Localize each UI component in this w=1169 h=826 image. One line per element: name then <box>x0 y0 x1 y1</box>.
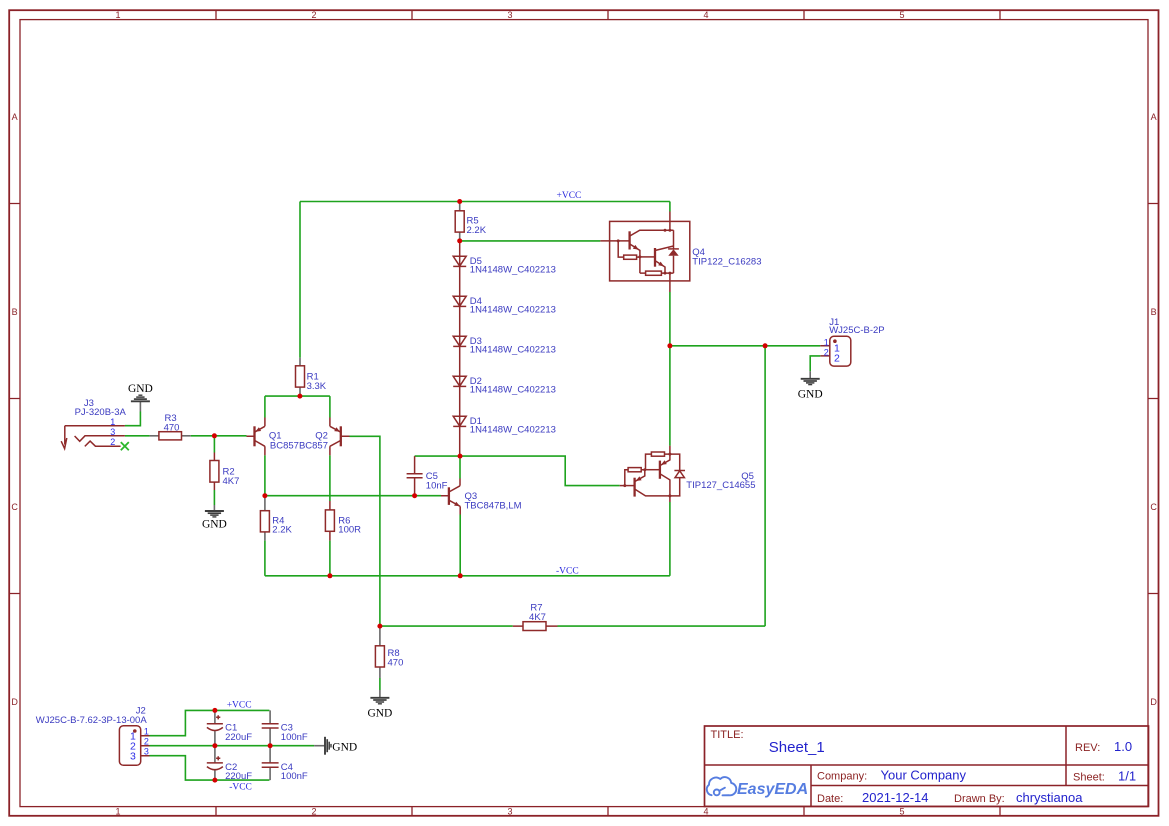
resistor R3 <box>150 413 191 440</box>
svg-text:2: 2 <box>311 10 316 20</box>
wire R6 bottom to -VCC rail <box>329 541 331 576</box>
svg-text:220uF: 220uF <box>225 732 252 743</box>
svg-text:+VCC: +VCC <box>227 701 252 711</box>
svg-text:100R: 100R <box>338 525 361 536</box>
svg-text:GND: GND <box>367 708 392 720</box>
svg-text:100nF: 100nF <box>281 732 308 743</box>
node junction R5 top <box>457 199 462 204</box>
svg-text:4: 4 <box>703 807 708 817</box>
svg-text:2: 2 <box>834 353 840 365</box>
transistor Q1 BC857 <box>247 418 282 456</box>
svg-text:2.2K: 2.2K <box>467 225 487 236</box>
wire Q3 emitter to -VCC rail <box>459 515 461 576</box>
resistor R2 <box>210 453 240 491</box>
svg-text:D: D <box>11 697 18 707</box>
svg-text:GND: GND <box>202 518 227 530</box>
svg-text:+VCC: +VCC <box>557 191 582 201</box>
wire J3 pin1 to ground <box>125 412 140 426</box>
svg-text:3: 3 <box>130 751 136 763</box>
svg-text:1N4148W_C402213: 1N4148W_C402213 <box>470 305 556 316</box>
wire +VCC rail down to Q4 collector <box>669 202 671 212</box>
wire R8 bottom to ground <box>379 678 381 690</box>
svg-text:2: 2 <box>144 737 149 747</box>
resistor R6 <box>325 501 361 541</box>
svg-text:3: 3 <box>110 427 115 437</box>
diode D2 1N4148W_C402213 <box>453 376 556 395</box>
svg-text:470: 470 <box>388 658 404 669</box>
wire D1 cathode to Q5 base <box>460 456 620 486</box>
capacitor C4 100nF <box>262 746 308 782</box>
svg-text:1: 1 <box>110 417 115 427</box>
svg-text:2021-12-14: 2021-12-14 <box>862 790 929 805</box>
svg-text:-VCC: -VCC <box>229 783 252 793</box>
node junction C3 bottom <box>268 743 273 748</box>
wire R7 to output branch <box>558 625 766 627</box>
diode chain connecting lead <box>459 241 461 456</box>
svg-text:GND: GND <box>332 741 357 753</box>
svg-text:3: 3 <box>507 807 512 817</box>
svg-text:TITLE:: TITLE: <box>711 729 744 741</box>
wire Q1 collector rail to Q3 base <box>265 495 441 497</box>
svg-text:1/1: 1/1 <box>1118 769 1136 784</box>
wire D1 cathode to C5 top <box>415 455 460 457</box>
wire R3 to Q1 base <box>191 435 247 437</box>
wire J3 pin3 to R3 <box>125 435 150 437</box>
wire R5 bottom to Q4 base <box>460 240 601 242</box>
ground symbol at R2 <box>202 505 227 530</box>
svg-text:BC857BC857: BC857BC857 <box>270 441 328 452</box>
node junction R6 at -VCC <box>327 573 332 578</box>
capacitor C5 <box>407 456 448 496</box>
svg-text:1: 1 <box>824 337 829 347</box>
svg-text:Your Company: Your Company <box>881 768 967 783</box>
svg-text:WJ25C-B-2P: WJ25C-B-2P <box>829 325 884 336</box>
wire Q5 collector to -VCC rail <box>669 502 671 576</box>
ground symbol at J3 <box>128 383 153 412</box>
svg-text:GND: GND <box>798 388 823 400</box>
svg-text:GND: GND <box>128 383 153 395</box>
svg-text:1: 1 <box>144 726 149 736</box>
svg-text:Sheet_1: Sheet_1 <box>769 739 825 756</box>
resistor R5 <box>455 202 487 241</box>
connector J1 WJ25C-B-2P <box>820 317 884 366</box>
svg-text:1: 1 <box>115 10 120 20</box>
transistor Q5 TIP127_C14655 darlington <box>620 446 756 502</box>
node junction Q1 collector / R4 <box>262 493 267 498</box>
svg-text:TIP122_C16283: TIP122_C16283 <box>692 257 761 268</box>
svg-text:220uF: 220uF <box>225 771 252 782</box>
svg-text:2.2K: 2.2K <box>272 525 292 536</box>
wire Q2 base to R7 R8 column <box>350 436 380 626</box>
wire output node to J1 <box>670 345 820 347</box>
svg-text:100nF: 100nF <box>281 771 308 782</box>
svg-text:1N4148W_C402213: 1N4148W_C402213 <box>470 385 556 396</box>
wire Q1 collector down <box>264 455 266 495</box>
svg-text:2: 2 <box>824 347 829 357</box>
title block <box>705 726 1149 806</box>
resistor R7 <box>513 603 558 631</box>
transistor Q2 BC857 <box>270 418 350 456</box>
svg-text:EasyEDA: EasyEDA <box>737 781 808 798</box>
capacitor C3 100nF <box>262 710 308 745</box>
svg-text:4K7: 4K7 <box>529 612 546 623</box>
svg-text:5: 5 <box>899 10 904 20</box>
svg-text:chrystianoa: chrystianoa <box>1016 790 1083 805</box>
node junction Q3 emitter at -VCC <box>458 573 463 578</box>
capacitor C1 220uF polarized <box>207 710 252 745</box>
EasyEDA logo <box>707 777 737 795</box>
svg-text:10nF: 10nF <box>426 480 448 491</box>
svg-text:B: B <box>12 307 18 317</box>
node junction R5 bottom / D5 anode <box>457 238 462 243</box>
diode D3 1N4148W_C402213 <box>453 336 556 355</box>
node junction C1 top <box>212 708 217 713</box>
node junction C2 bottom <box>212 778 217 783</box>
svg-text:A: A <box>12 112 18 122</box>
wire junction down to R2 <box>213 436 215 453</box>
wire R2 bottom to ground <box>213 490 215 505</box>
transistor Q4 TIP122_C16283 darlington <box>600 212 761 293</box>
ruler column numbers bottom <box>115 807 904 817</box>
svg-text:-VCC: -VCC <box>556 566 579 576</box>
ruler row letters right <box>1150 112 1157 707</box>
wire output branch down to R7 <box>764 346 766 626</box>
wire junction to R7 <box>380 625 513 627</box>
node junction C5 bottom <box>412 493 417 498</box>
svg-text:4K7: 4K7 <box>223 476 240 487</box>
ground symbol at R8 <box>367 690 392 720</box>
ground symbol at J1 <box>798 371 823 400</box>
ruler row letters left <box>11 112 18 707</box>
svg-text:1N4148W_C402213: 1N4148W_C402213 <box>470 425 556 436</box>
wire -VCC rail <box>265 575 670 577</box>
wire +VCC top rail <box>300 201 670 203</box>
svg-text:Drawn By:: Drawn By: <box>954 793 1005 805</box>
node junction output at Q4 emitter <box>667 343 672 348</box>
diode D1 1N4148W_C402213 <box>453 416 556 435</box>
wire Q2 collector down to R6 <box>329 455 331 501</box>
svg-text:Date:: Date: <box>817 793 843 805</box>
svg-text:470: 470 <box>164 422 180 433</box>
svg-text:TIP127_C14655: TIP127_C14655 <box>686 480 755 491</box>
svg-text:3: 3 <box>507 10 512 20</box>
svg-text:1.0: 1.0 <box>1114 739 1132 754</box>
node junction R1 bottom <box>297 394 302 399</box>
node junction D1 cathode <box>458 454 463 459</box>
svg-text:1N4148W_C402213: 1N4148W_C402213 <box>470 265 556 276</box>
capacitor C2 220uF polarized <box>207 746 252 782</box>
wire +VCC rail down to R1 <box>299 202 301 358</box>
svg-text:REV:: REV: <box>1075 742 1100 754</box>
no-connect flag on J3 pin 2 <box>121 442 129 450</box>
svg-text:C: C <box>11 502 18 512</box>
svg-text:Sheet:: Sheet: <box>1073 772 1105 784</box>
svg-text:2: 2 <box>311 807 316 817</box>
resistor R8 <box>375 626 403 678</box>
node junction R2 top <box>212 433 217 438</box>
svg-text:B: B <box>1151 307 1157 317</box>
svg-text:1N4148W_C402213: 1N4148W_C402213 <box>470 345 556 356</box>
wire Q4 emitter down to output node <box>669 292 671 446</box>
svg-text:TBC847B,LM: TBC847B,LM <box>465 501 522 512</box>
diode D4 1N4148W_C402213 <box>453 296 556 315</box>
ruler column numbers top <box>115 10 904 20</box>
svg-text:1: 1 <box>115 807 120 817</box>
svg-text:2: 2 <box>110 437 115 447</box>
diode D5 1N4148W_C402213 <box>453 256 556 275</box>
wire R4 bottom to -VCC rail <box>264 541 266 576</box>
wire Q1 Q2 emitter rail <box>265 396 330 417</box>
ground symbol sideways at J2 rail <box>314 737 357 755</box>
svg-text:Company:: Company: <box>817 771 867 783</box>
connector J3 PJ-320B-3A audio jack <box>61 398 126 449</box>
svg-text:PJ-320B-3A: PJ-320B-3A <box>75 407 127 418</box>
node junction output to R7 branch <box>763 343 768 348</box>
wire J2 pin1 to +VCC rail <box>150 710 270 735</box>
resistor R1 <box>296 358 327 396</box>
svg-text:3: 3 <box>144 747 149 757</box>
svg-text:3.3K: 3.3K <box>307 381 327 392</box>
resistor R4 <box>260 496 292 541</box>
wire J2 pin3 to -VCC rail <box>150 756 270 780</box>
svg-text:4: 4 <box>703 10 708 20</box>
svg-text:WJ25C-B-7.62-3P-13-00A: WJ25C-B-7.62-3P-13-00A <box>36 715 148 726</box>
svg-text:C: C <box>1150 502 1157 512</box>
node junction R7 R8 and Q2 base column <box>377 624 382 629</box>
svg-text:A: A <box>1151 112 1157 122</box>
wire J1 pin2 to ground <box>810 356 820 371</box>
svg-text:5: 5 <box>899 807 904 817</box>
wire J2 pin2 ground rail <box>150 745 315 747</box>
wire D1 cathode down to Q3 collector <box>459 456 461 478</box>
transistor Q3 TBC847B <box>441 479 522 515</box>
node junction C1 bottom <box>212 743 217 748</box>
svg-text:D: D <box>1150 697 1157 707</box>
connector J2 WJ25C-B-7.62-3P-13-00A <box>36 705 150 765</box>
